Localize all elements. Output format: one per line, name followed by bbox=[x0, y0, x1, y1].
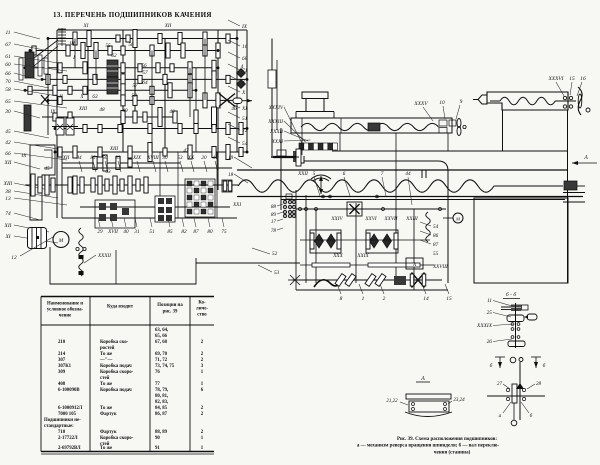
svg-text:82: 82 bbox=[181, 229, 187, 235]
gearbox inner vertical shaft VII bbox=[217, 30, 219, 190]
gearbox frame left vertical bbox=[56, 30, 58, 218]
svg-text:XXVII: XXVII bbox=[384, 216, 398, 222]
svg-text:88: 88 bbox=[271, 204, 277, 210]
gearbox frame top line bbox=[57, 29, 247, 31]
gears on shaft I bbox=[26, 64, 30, 72]
feed box shaft y168 bbox=[62, 167, 232, 169]
apron S-handle bbox=[314, 277, 342, 287]
svg-text:1: 1 bbox=[201, 370, 204, 375]
half-nut symbol on leadscrew bbox=[313, 178, 329, 181]
svg-text:6: 6 bbox=[343, 171, 346, 177]
svg-text:XXI: XXI bbox=[232, 202, 241, 208]
feed box frame left vertical bbox=[61, 152, 63, 218]
svg-text:78: 78 bbox=[271, 228, 277, 234]
svg-text:64: 64 bbox=[142, 79, 148, 86]
svg-text:61: 61 bbox=[5, 54, 11, 60]
apron verticals bbox=[295, 190, 297, 290]
gears on shaft II bbox=[28, 86, 32, 94]
svg-text:XXXIV: XXXIV bbox=[268, 105, 284, 111]
svg-text:XXXVI: XXXVI bbox=[548, 76, 564, 82]
carriage support verticals bbox=[339, 133, 341, 151]
svg-text:11: 11 bbox=[6, 30, 11, 36]
svg-text:Фартук: Фартук bbox=[100, 412, 117, 417]
feed box far-left gears bbox=[31, 174, 35, 196]
svg-text:1: 1 bbox=[201, 382, 204, 387]
svg-text:б: б bbox=[543, 362, 546, 369]
carriage band inner verticals bbox=[301, 118, 303, 155]
rack cell row bbox=[299, 143, 304, 150]
shaft IX lower bbox=[62, 162, 180, 164]
svg-text:53: 53 bbox=[274, 270, 280, 276]
detail A corner circles bbox=[412, 403, 415, 406]
feed box left pulleys bbox=[68, 177, 72, 193]
svg-text:72: 72 bbox=[242, 128, 248, 134]
svg-text:XXIX: XXIX bbox=[356, 253, 369, 259]
svg-text:а: а bbox=[499, 413, 502, 419]
svg-text:2: 2 bbox=[383, 296, 386, 302]
svg-text:48: 48 bbox=[99, 106, 105, 113]
svg-text:71, 72: 71, 72 bbox=[155, 358, 168, 363]
svg-text:2: 2 bbox=[201, 406, 204, 411]
svg-text:условное обозна-: условное обозна- bbox=[47, 308, 84, 313]
left bracket outline bbox=[30, 145, 55, 220]
feed rod line y199.5 bbox=[281, 199, 565, 201]
svg-text:91: 91 bbox=[155, 446, 160, 451]
svg-text:63, 64,: 63, 64, bbox=[155, 328, 169, 333]
svg-text:стандартные:: стандартные: bbox=[44, 424, 74, 429]
svg-text:87: 87 bbox=[433, 242, 439, 248]
svg-text:1: 1 bbox=[362, 296, 365, 302]
svg-text:б: б bbox=[530, 412, 533, 419]
svg-text:Куда входит: Куда входит bbox=[107, 305, 134, 310]
svg-text:56: 56 bbox=[128, 42, 134, 48]
chain drive squiggle XXXII bbox=[79, 228, 83, 276]
spindle vertical shaft bbox=[280, 128, 282, 210]
tool post top rect bbox=[302, 92, 328, 99]
connector line left pedestal to apron bbox=[196, 262, 300, 264]
svg-text:62: 62 bbox=[111, 53, 117, 59]
apron mid shaft y240 bbox=[300, 239, 430, 241]
feed box top leaders bbox=[79, 161, 82, 172]
svg-text:30: 30 bbox=[162, 155, 168, 161]
svg-text:3: 3 bbox=[241, 79, 245, 85]
leadscrew coupling hatch bbox=[564, 181, 577, 190]
shaft X bbox=[48, 99, 237, 101]
svg-text:XVII: XVII bbox=[107, 229, 118, 235]
svg-text:408: 408 bbox=[58, 382, 66, 387]
belt pulley rects left bbox=[19, 58, 23, 80]
svg-text:58: 58 bbox=[131, 93, 137, 99]
leadscrew wavy main bbox=[238, 180, 494, 192]
svg-text:2: 2 bbox=[201, 430, 204, 435]
shaft XI top bbox=[48, 38, 237, 40]
svg-text:То же: То же bbox=[100, 446, 112, 451]
svg-text:44: 44 bbox=[405, 170, 411, 177]
svg-text:XVIII: XVIII bbox=[146, 155, 159, 161]
tailstock quill point bbox=[478, 95, 487, 104]
table top border bbox=[41, 296, 214, 298]
svg-text:15: 15 bbox=[569, 76, 575, 82]
apron motor circle bbox=[453, 213, 463, 223]
svg-text:307К1: 307К1 bbox=[58, 364, 72, 369]
svg-text:А: А bbox=[583, 155, 588, 161]
belt crossing X symbol bbox=[41, 95, 49, 104]
shaft line y79 bbox=[42, 78, 247, 80]
apron rod y265 bbox=[300, 264, 434, 266]
apron star end left bbox=[290, 275, 295, 280]
svg-text:ство: ство bbox=[197, 313, 207, 318]
svg-text:Коробка подач: Коробка подач bbox=[100, 364, 132, 369]
svg-text:XXVIII: XXVIII bbox=[432, 264, 448, 270]
detail b vertical rod bbox=[519, 362, 521, 420]
detail b-b bearing capsule bbox=[507, 315, 524, 322]
apron rounded top curve bbox=[304, 161, 448, 283]
gearbox vertical shaft IV bbox=[164, 39, 166, 153]
svg-text:90: 90 bbox=[155, 436, 160, 441]
svg-text:27: 27 bbox=[497, 382, 503, 387]
detail b bottom circle bbox=[511, 420, 517, 426]
cross-feed screw hatch coupling bbox=[368, 123, 380, 131]
gear cluster dark block B bbox=[107, 77, 118, 94]
detail b arrowhead on rod bbox=[516, 383, 524, 389]
gears on shaft XIII bbox=[68, 125, 72, 133]
feed box end bearings right bbox=[222, 180, 232, 192]
svg-text:Подшипники не-: Подшипники не- bbox=[44, 418, 81, 423]
detail b-b bottom capsule bbox=[508, 341, 525, 347]
svg-text:IX: IX bbox=[241, 24, 248, 30]
svg-text:II: II bbox=[58, 94, 63, 100]
worm coil top-left bbox=[58, 28, 66, 30]
svg-text:I: I bbox=[72, 55, 75, 61]
svg-text:IX: IX bbox=[21, 153, 28, 159]
svg-text:13. ПЕРЕЧЕНЬ ПОДШИПНИКОВ КАЧЕН: 13. ПЕРЕЧЕНЬ ПОДШИПНИКОВ КАЧЕНИЯ bbox=[53, 11, 212, 19]
gearbox center vertical shaft V bbox=[122, 30, 124, 152]
svg-text:49: 49 bbox=[122, 107, 128, 114]
svg-text:6-1000912Л: 6-1000912Л bbox=[58, 406, 83, 411]
section arrow A right bbox=[572, 162, 597, 164]
svg-text:42: 42 bbox=[5, 140, 11, 146]
svg-text:чения (станина): чения (станина) bbox=[434, 451, 471, 456]
svg-text:52: 52 bbox=[272, 251, 278, 257]
svg-text:57: 57 bbox=[132, 83, 138, 89]
apron cross gear right bbox=[412, 273, 425, 288]
svg-text:67: 67 bbox=[5, 42, 11, 48]
gearbox left vertical x48 bbox=[47, 40, 49, 135]
svg-text:X: X bbox=[241, 90, 246, 96]
svg-text:13: 13 bbox=[5, 196, 11, 202]
motor pulley stack bottom-left bbox=[28, 228, 47, 249]
svg-text:25: 25 bbox=[487, 310, 493, 316]
apron gear box with X bbox=[347, 202, 362, 216]
svg-text:III: III bbox=[68, 41, 74, 47]
svg-text:М: М bbox=[455, 217, 460, 222]
svg-text:Позиции на: Позиции на bbox=[157, 303, 183, 308]
svg-text:—"—: —"— bbox=[99, 358, 112, 363]
feed box gear cone bbox=[91, 178, 95, 192]
svg-text:30: 30 bbox=[4, 109, 11, 115]
svg-text:Коробка скоро-: Коробка скоро- bbox=[100, 436, 134, 441]
svg-text:60: 60 bbox=[5, 62, 11, 68]
shaft IX gear pair with crosses bbox=[56, 118, 64, 135]
svg-text:Рис. 39. Схема расположения по: Рис. 39. Схема расположения подшипников: bbox=[397, 437, 497, 442]
svg-text:85: 85 bbox=[167, 229, 173, 235]
svg-text:XII: XII bbox=[62, 155, 70, 161]
leaders for XXXV 10 9 bbox=[423, 107, 433, 121]
svg-text:8: 8 bbox=[340, 296, 343, 302]
detail b section arrows bbox=[495, 356, 505, 358]
svg-text:XXII: XXII bbox=[297, 171, 308, 177]
svg-text:18: 18 bbox=[228, 172, 234, 178]
table bottom border double bbox=[41, 451, 214, 453]
feed box shaft y185 bbox=[25, 184, 238, 186]
tailstock screw straight lead-in bbox=[490, 100, 500, 102]
spindle short line y158 bbox=[271, 156, 299, 158]
svg-text:стей: стей bbox=[100, 376, 110, 381]
feed box lower-left cluster bbox=[95, 200, 135, 228]
detail b-b top bars bbox=[501, 306, 512, 308]
table vertical borders bbox=[40, 297, 42, 452]
svg-text:710: 710 bbox=[58, 430, 66, 435]
svg-text:16: 16 bbox=[242, 44, 248, 50]
svg-text:68: 68 bbox=[242, 56, 248, 62]
svg-text:54: 54 bbox=[242, 141, 248, 147]
svg-text:46: 46 bbox=[169, 108, 175, 115]
tailstock bearing circles bbox=[563, 96, 566, 99]
svg-text:86: 86 bbox=[433, 233, 439, 239]
left callout leader lines bbox=[14, 32, 40, 39]
cross-feed screw wavy bbox=[301, 123, 439, 130]
svg-text:XII: XII bbox=[4, 223, 12, 229]
svg-text:16: 16 bbox=[580, 76, 586, 82]
svg-text:7: 7 bbox=[381, 171, 384, 177]
gearbox extra gears lower right bbox=[143, 112, 147, 122]
svg-text:15: 15 bbox=[446, 296, 452, 302]
detail b-b hatched block bbox=[511, 305, 521, 312]
apron diagonal handles bbox=[335, 274, 346, 287]
svg-text:ростей: ростей bbox=[100, 346, 115, 351]
svg-text:Фартук: Фартук bbox=[100, 430, 117, 435]
bed line y170 bbox=[237, 169, 568, 171]
svg-text:6-100090В: 6-100090В bbox=[58, 388, 80, 393]
svg-text:а — механизм реверса вращения: а — механизм реверса вращения шпинделя; … bbox=[357, 444, 500, 449]
gearbox vertical at x272 bbox=[271, 39, 273, 159]
rack pinion bracket bbox=[296, 150, 304, 163]
svg-text:X: X bbox=[79, 94, 84, 100]
svg-text:XII: XII bbox=[4, 160, 12, 166]
svg-text:80, 81,: 80, 81, bbox=[155, 394, 169, 399]
svg-text:М: М bbox=[58, 238, 64, 244]
svg-text:XX: XX bbox=[187, 155, 195, 161]
svg-text:69, 70: 69, 70 bbox=[155, 352, 168, 357]
gearbox inner vertical shaft VIII bbox=[236, 30, 238, 152]
shaft I bbox=[25, 67, 218, 69]
svg-text:87: 87 bbox=[193, 229, 199, 235]
apron worm cluster left bbox=[310, 230, 341, 253]
svg-text:19: 19 bbox=[228, 155, 234, 161]
svg-text:IX: IX bbox=[50, 109, 57, 115]
svg-text:чение: чение bbox=[59, 314, 72, 319]
svg-text:58: 58 bbox=[5, 87, 11, 93]
svg-text:Коробка подач: Коробка подач bbox=[100, 388, 132, 393]
detail A body bbox=[409, 401, 449, 412]
svg-text:б - б: б - б bbox=[506, 291, 516, 298]
reverse bevel cross XI bbox=[219, 94, 235, 107]
svg-text:38: 38 bbox=[4, 189, 11, 195]
detail b-b stepped pin bbox=[522, 305, 529, 310]
svg-text:51: 51 bbox=[242, 116, 248, 122]
right callout leader lines bbox=[228, 20, 240, 26]
svg-text:То же: То же bbox=[100, 406, 112, 411]
bevel diamond pair near label 4 bbox=[237, 69, 246, 78]
svg-text:Ко-: Ко- bbox=[198, 301, 206, 306]
gears on shaft XIV bbox=[58, 147, 62, 157]
svg-text:XXXIII: XXXIII bbox=[267, 119, 283, 125]
svg-text:10: 10 bbox=[439, 100, 445, 106]
apron bottom edge bbox=[296, 289, 448, 291]
tailstock handwheel bbox=[578, 87, 582, 115]
svg-text:73, 74, 75: 73, 74, 75 bbox=[155, 364, 175, 369]
svg-text:То же: То же bbox=[100, 382, 112, 387]
svg-text:XIII: XIII bbox=[78, 106, 88, 112]
gears on shaft X bbox=[58, 96, 62, 104]
svg-text:XXIV: XXIV bbox=[330, 216, 343, 222]
gearbox vertical shaft VI bbox=[134, 30, 136, 117]
svg-text:47: 47 bbox=[183, 147, 189, 154]
svg-text:XI: XI bbox=[4, 234, 10, 240]
svg-text:74: 74 bbox=[5, 211, 11, 217]
gearbox bearing ticks bbox=[47, 37, 49, 39]
apron box with A bbox=[406, 258, 423, 269]
svg-text:50: 50 bbox=[102, 155, 108, 161]
svg-text:55: 55 bbox=[105, 43, 111, 49]
svg-text:39: 39 bbox=[115, 155, 121, 161]
vertical x396 up to carriage bbox=[395, 133, 397, 186]
svg-text:Наименование и: Наименование и bbox=[47, 302, 83, 307]
apron bottom shaft y280 bbox=[292, 279, 442, 281]
svg-text:56: 56 bbox=[141, 63, 147, 69]
cross-feed end bearings bbox=[439, 120, 447, 126]
svg-text:26: 26 bbox=[487, 339, 493, 345]
svg-text:4: 4 bbox=[241, 63, 244, 70]
detail A top bar bbox=[406, 394, 451, 399]
shaft line y117 bbox=[42, 116, 175, 118]
shaft II bbox=[25, 89, 196, 91]
detail b-b dot pairs bbox=[511, 323, 514, 326]
left pedestal inner vertical bbox=[115, 250, 117, 284]
svg-text:75: 75 bbox=[221, 229, 227, 235]
detail b top circles bbox=[510, 357, 516, 363]
detail b center bar bbox=[512, 384, 517, 403]
svg-text:2: 2 bbox=[201, 358, 204, 363]
svg-text:76: 76 bbox=[155, 370, 160, 375]
svg-text:31: 31 bbox=[134, 229, 140, 235]
gearbox vertical at x277 bbox=[276, 60, 278, 130]
feed box cluster right grid bbox=[185, 179, 215, 217]
cross-slide body outline bbox=[291, 118, 452, 133]
apron hatched block bbox=[394, 276, 406, 285]
svg-text:70: 70 bbox=[5, 79, 11, 85]
apron vertical chain squiggle bbox=[426, 212, 430, 242]
bevel output pill and arrow bbox=[233, 98, 242, 104]
svg-text:XIII: XIII bbox=[3, 181, 13, 187]
gears on shaft III bbox=[32, 46, 36, 55]
svg-text:45: 45 bbox=[5, 129, 11, 135]
svg-text:46: 46 bbox=[231, 105, 237, 112]
svg-text:рис. 39: рис. 39 bbox=[163, 310, 178, 315]
svg-text:2: 2 bbox=[201, 352, 204, 357]
cross-feed handwheel bbox=[457, 119, 461, 128]
svg-text:309: 309 bbox=[58, 370, 66, 375]
svg-text:XXX: XXX bbox=[332, 253, 343, 259]
svg-text:84: 84 bbox=[76, 154, 82, 161]
shaft XIII bbox=[55, 128, 247, 130]
right pedestal rectangle bbox=[474, 198, 568, 283]
shaft XIV bbox=[55, 151, 247, 153]
apron shaft junction circles bbox=[299, 208, 302, 211]
svg-text:28: 28 bbox=[536, 382, 542, 387]
feed box bottom leaders bbox=[98, 218, 100, 227]
shaft ticks II near x424 bbox=[421, 170, 423, 178]
svg-text:80: 80 bbox=[207, 229, 213, 235]
bed end bars right bbox=[563, 192, 585, 194]
motor pulley hatched lower bbox=[24, 105, 31, 131]
svg-text:14: 14 bbox=[423, 296, 429, 302]
svg-text:3: 3 bbox=[201, 364, 204, 369]
tool post base line bbox=[296, 111, 334, 113]
svg-text:2-17722Л: 2-17722Л bbox=[58, 436, 78, 441]
detail A bottom arc bbox=[405, 412, 452, 417]
svg-text:66: 66 bbox=[5, 71, 11, 77]
svg-text:54: 54 bbox=[433, 223, 439, 230]
svg-text:XXVI: XXVI bbox=[364, 216, 377, 222]
feed rod line y196.5 bbox=[237, 196, 583, 198]
left pedestal box bbox=[50, 247, 196, 284]
tailstock screw tail line bbox=[555, 100, 576, 102]
gear on vertical x272 bbox=[268, 70, 276, 88]
svg-text:XXXV: XXXV bbox=[413, 101, 428, 107]
svg-text:89: 89 bbox=[271, 212, 277, 218]
table header separator bbox=[41, 324, 214, 326]
svg-text:XII: XII bbox=[164, 23, 172, 29]
detail b-b vertical shaft bbox=[515, 303, 517, 348]
feed box cluster mid dark bbox=[155, 196, 175, 222]
svg-text:214: 214 bbox=[58, 352, 66, 357]
svg-text:40: 40 bbox=[123, 228, 129, 235]
svg-text:Коробка скоро-: Коробка скоро- bbox=[100, 370, 134, 375]
tool post middle rect bbox=[306, 99, 324, 112]
svg-text:XXIII: XXIII bbox=[405, 216, 418, 222]
svg-text:Коробка ско-: Коробка ско- bbox=[100, 340, 129, 345]
svg-text:9: 9 bbox=[460, 99, 463, 105]
svg-text:63: 63 bbox=[92, 94, 98, 100]
svg-text:65: 65 bbox=[5, 99, 11, 105]
svg-text:20: 20 bbox=[201, 155, 207, 161]
svg-text:55: 55 bbox=[433, 251, 439, 257]
apron rod segments bbox=[312, 263, 350, 267]
svg-text:66: 66 bbox=[5, 151, 11, 157]
saddle small step left bbox=[296, 112, 334, 119]
svg-text:2-69792ВЛ: 2-69792ВЛ bbox=[58, 446, 81, 451]
gear cluster dark block A bbox=[107, 60, 118, 77]
svg-text:То же: То же bbox=[100, 352, 112, 357]
spindle bearing cluster bottom bbox=[286, 194, 292, 199]
svg-text:65, 66: 65, 66 bbox=[155, 334, 168, 339]
leadscrew straight right portion bbox=[494, 185, 563, 187]
tailstock pedestal verticals bbox=[502, 110, 504, 151]
svg-text:XXXIX: XXXIX bbox=[476, 323, 493, 329]
svg-text:А: А bbox=[412, 263, 416, 268]
gearbox extra verticals for density bbox=[74, 39, 76, 69]
